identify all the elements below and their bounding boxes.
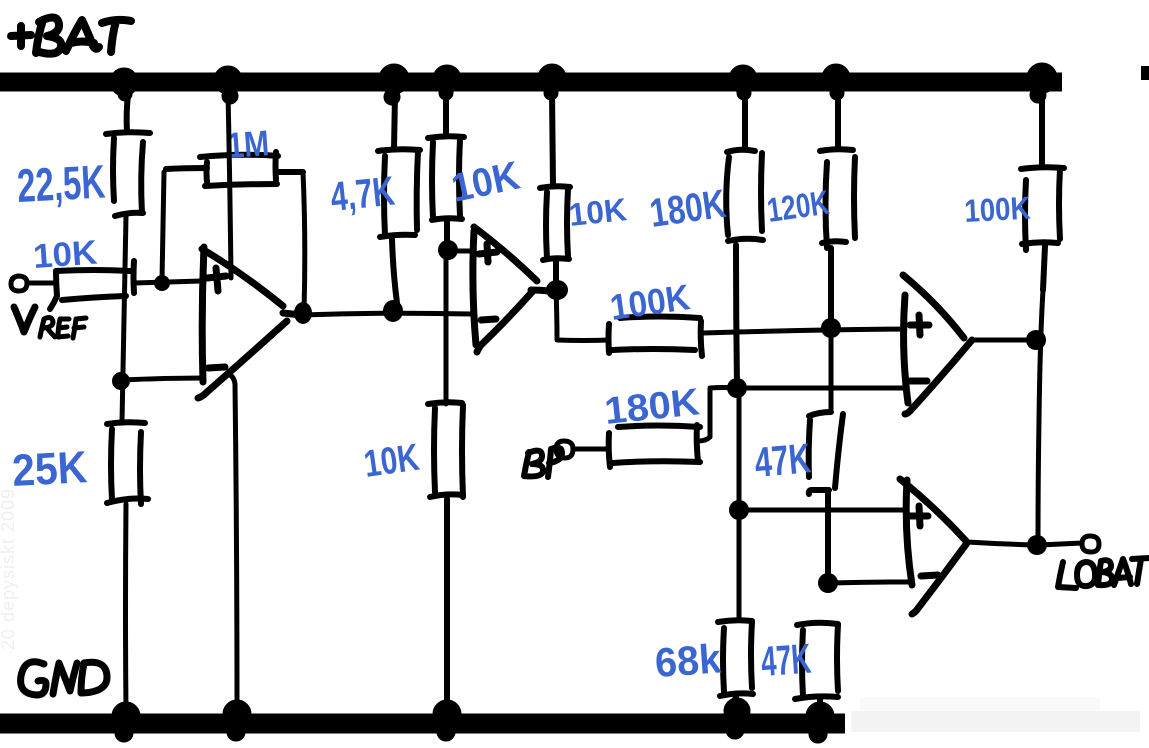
junction dot on +BAT rail x=1042 [1027, 63, 1057, 103]
op-amp U2 [473, 227, 549, 352]
junction dot on GND rail x=237 [223, 700, 251, 741]
+BAT label [11, 17, 131, 53]
U2 minus sign [481, 319, 496, 320]
wire U4 -input [830, 582, 908, 583]
resistor R 47K lower [795, 623, 838, 714]
resistor R 25K [107, 422, 148, 504]
svg-text:20 depysiskt 2009: 20 depysiskt 2009 [0, 488, 18, 650]
junction dot on +BAT rail x=552 [538, 64, 566, 100]
wire BP to 180K [573, 447, 609, 452]
resistor R 68k [718, 620, 753, 708]
node U2 +input junction 448,250 [438, 240, 458, 260]
resistor R 10K below U2 [428, 402, 463, 712]
LOBAT terminal circle [1082, 536, 1099, 552]
wire +input of U1 [134, 281, 202, 283]
wire x737 net down to 68k [737, 390, 742, 620]
wire node to U2 +input [448, 249, 474, 254]
resistor R 10K above U2 [428, 93, 464, 248]
node junction at 739,510 [729, 500, 749, 520]
op-amp U4 [900, 479, 967, 614]
wire 1M right lead down to U1 output [303, 172, 305, 311]
node U4 output junction [1027, 535, 1047, 555]
U3 plus sign [910, 315, 929, 335]
VREF terminal circle [11, 276, 27, 291]
op-amp U3 [903, 275, 972, 414]
svg-text:100K: 100K [963, 190, 1031, 229]
wire 120K net down through -net [829, 330, 834, 412]
wire node down to R10K lower [444, 254, 449, 404]
resistor R 10K input (horizontal) [50, 261, 134, 309]
U1 minus sign [208, 367, 225, 368]
node U1 output blob [294, 302, 312, 324]
wire 25K to GND rail [123, 504, 129, 712]
wire -net horizontal to U3 -input [741, 386, 906, 391]
wire VREF to R10K [27, 281, 56, 286]
junction dot on GND rail x=737 [724, 698, 750, 739]
junction dot on +BAT rail x=228 [214, 66, 242, 104]
junction dot on +BAT rail x=743 [729, 65, 757, 100]
wire U1 V+ supply from rail [228, 93, 231, 278]
junction dot on GND rail x=820 [806, 702, 834, 743]
wire U3 output [972, 338, 1033, 343]
wire U1 V- supply to GND rail [228, 374, 237, 710]
wire output bus vertical [1038, 290, 1043, 545]
svg-text:1M: 1M [226, 122, 271, 166]
svg-text:10K: 10K [567, 191, 628, 233]
U4 minus sign [921, 575, 938, 576]
wire U4 output [967, 542, 1034, 545]
wire feedback vertical to +input [162, 172, 164, 281]
svg-text:47K: 47K [759, 635, 812, 685]
U3 minus sign [910, 378, 927, 385]
svg-text:10K: 10K [361, 437, 422, 486]
wire -input of U1 from divider node [122, 378, 202, 380]
resistor R 10K pull-up [540, 92, 570, 286]
resistor R 4,7K [378, 95, 420, 303]
VREF label [14, 307, 86, 338]
junction dot on +BAT rail x=124 [110, 68, 138, 101]
wire 100K to U3 +input [703, 329, 904, 333]
residual light band right of GND rail [851, 711, 1140, 732]
svg-text:4,7K: 4,7K [328, 167, 397, 219]
node junction at 121,381 [112, 372, 130, 390]
node junction at 737,388 [727, 378, 747, 398]
node junction at 162,283 [154, 275, 170, 291]
svg-text:25K: 25K [11, 441, 89, 496]
junction dot on +BAT rail x=447 [433, 65, 461, 100]
resistor R 1M (horizontal feedback) [166, 152, 303, 186]
resistor R 100K mid (horizontal) [609, 317, 703, 357]
junction dot on GND rail x=447 [433, 700, 461, 741]
resistor R 47K upper [809, 412, 843, 581]
resistor R 180K lower (horizontal) [609, 425, 700, 467]
GND label [21, 662, 107, 695]
junction dot on +BAT rail x=836 [822, 64, 850, 100]
BP terminal circle [556, 441, 573, 458]
wire U1 output to U2 -input [301, 313, 471, 315]
GND rail [0, 714, 845, 734]
node junction 4,7K lead at 392,310 [383, 300, 403, 322]
junction dot on GND rail x=126 [112, 702, 140, 742]
resistor R 22,5K [106, 95, 150, 216]
svg-text:10K: 10K [32, 234, 99, 276]
node junction at 828,583 [818, 573, 838, 593]
wire U4 +input [741, 508, 906, 513]
wire left vertical 22,5K to 25K [122, 216, 126, 422]
wire U2 output down and right to 100K [556, 290, 609, 341]
LOBAT label [1058, 558, 1149, 588]
BP label [524, 448, 562, 477]
resistor R 120K [820, 93, 855, 326]
resistor R 180K upper [726, 93, 763, 386]
U2 plus sign [479, 244, 497, 262]
svg-text:22,5K: 22,5K [16, 154, 107, 212]
node junction 120K lead at 831,328 [821, 318, 841, 338]
op-amp U1 [198, 247, 301, 398]
+BAT rail right end fragment [1141, 66, 1149, 80]
+BAT rail [0, 73, 1062, 92]
svg-text:47K: 47K [753, 434, 813, 486]
U1 plus sign [207, 268, 226, 291]
wire 180K step up to node [698, 388, 737, 442]
U4 plus sign [910, 506, 928, 526]
svg-text:68k: 68k [653, 635, 722, 686]
resistor R 100K right [1021, 92, 1064, 290]
wire to LOBAT [1040, 543, 1082, 545]
node U3 output junction [1026, 330, 1046, 350]
node U2 output blob [546, 280, 568, 300]
junction dot on +BAT rail x=394 [379, 64, 409, 105]
